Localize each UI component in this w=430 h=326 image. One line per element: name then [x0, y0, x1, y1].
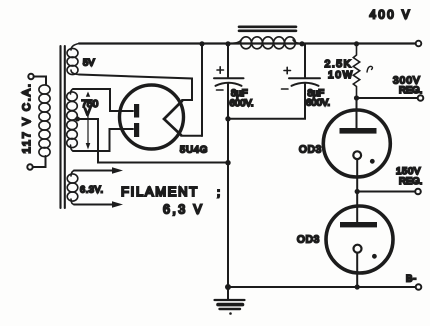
node junction choke right / cap C2	[299, 41, 304, 46]
wire OD3 V2 top lead	[356, 98, 358, 129]
capacitor C2 8uF 600V	[289, 78, 320, 86]
transformer T1 core	[61, 46, 65, 208]
label C2 minus	[282, 88, 289, 90]
label REG. (150V)	[399, 176, 422, 187]
label 10W	[328, 70, 354, 81]
terminal 400V output	[416, 41, 422, 47]
node junction OD3 V3 on B- rail	[355, 284, 360, 289]
label 150V	[396, 166, 421, 177]
capacitor C1 8uF 600V	[214, 78, 244, 86]
svg-text:2.5K: 2.5K	[325, 58, 353, 70]
wire cap C2 top lead	[304, 44, 306, 78]
filter choke L1 winding	[228, 37, 302, 49]
label 117 V C.A.	[21, 82, 33, 153]
svg-text:400 V: 400 V	[370, 10, 413, 22]
wire OD3 V3 top lead	[356, 192, 358, 224]
label REG. (300V)	[399, 85, 422, 96]
svg-text:6,3 V: 6,3 V	[163, 203, 204, 217]
terminal B-	[416, 284, 422, 290]
cathode circle of OD3 V2	[353, 151, 361, 159]
node junction cap C1 / choke left	[225, 41, 230, 46]
wire OD3 V2 cathode down	[356, 159, 358, 191]
wire OD3 V3 cathode down to B- rail	[356, 253, 358, 287]
label 750 V	[82, 99, 99, 117]
wire cap C1 top lead	[227, 44, 229, 78]
terminal 117V line top	[28, 74, 33, 79]
plate upper of 5U4G	[134, 104, 139, 118]
wire 6.3V bottom lead with arrow	[74, 201, 123, 207]
label 6.3V.	[80, 185, 104, 195]
label 6,3 V	[163, 203, 204, 217]
svg-text:10W: 10W	[328, 70, 354, 81]
anode bar of OD3 V3	[340, 222, 377, 227]
svg-text:5U4G: 5U4G	[180, 145, 208, 156]
label 2.5K	[325, 58, 353, 70]
label C2 600V	[306, 98, 330, 109]
resistor R1 2.5K 10W	[353, 44, 359, 99]
svg-text:OD3: OD3	[297, 235, 320, 246]
pin dot of OD3 V3	[372, 254, 377, 259]
svg-text:600V.: 600V.	[230, 98, 254, 109]
label C1 8uF	[231, 88, 248, 99]
squiggle mark	[367, 66, 373, 72]
label 400 V	[370, 10, 413, 22]
measure arrow 750 V	[86, 92, 91, 150]
terminal 117V line bottom	[27, 164, 32, 169]
wire top B+ bus	[79, 42, 418, 44]
svg-text:6.3V.: 6.3V.	[80, 185, 104, 195]
wire 150V REG output	[357, 191, 415, 193]
terminal 150V REG	[415, 189, 421, 195]
label C2 plus	[284, 67, 291, 73]
wire 300V REG output	[357, 97, 419, 99]
node junction center tap / cap C1 negative rail	[225, 160, 230, 165]
wire primary bottom lead	[33, 156, 46, 167]
wire 6.3V top lead with arrow	[74, 167, 123, 173]
pin dot of OD3 V2	[370, 159, 375, 164]
node 750V center tap	[75, 117, 80, 122]
node junction C2 return on C1 rail	[225, 116, 230, 121]
anode bar of OD3 V2	[340, 128, 377, 134]
wire center tap to ground bus	[78, 119, 227, 163]
svg-text:5V: 5V	[83, 58, 95, 69]
wire filament bottom to B+ riser	[181, 135, 202, 137]
label B-	[406, 274, 417, 285]
regulator tube V2 OD3 envelope	[323, 110, 390, 177]
label 5U4G	[180, 145, 208, 156]
transformer primary winding	[39, 85, 50, 157]
plate lower of 5U4G	[134, 123, 139, 137]
label C1 minus	[217, 89, 224, 91]
wire B- rail	[228, 286, 416, 288]
ground	[215, 287, 245, 315]
node junction resistor top	[354, 41, 359, 46]
regulator tube V3 OD3 envelope	[326, 206, 393, 273]
transformer 6.3V winding	[67, 171, 78, 205]
label C1 600V	[230, 98, 254, 109]
svg-text:REG.: REG.	[399, 85, 422, 96]
node junction ground	[225, 284, 231, 290]
filter choke L1 core	[239, 27, 296, 31]
label OD3 (V3)	[297, 235, 320, 246]
transformer 5V winding	[67, 44, 79, 75]
svg-text:OD3: OD3	[299, 145, 322, 156]
wire 5V winding bottom lead to filament top	[79, 75, 192, 101]
svg-text:117 V C.A.: 117 V C.A.	[21, 82, 33, 153]
wire cathode riser to bus	[201, 44, 203, 137]
terminal 300V REG	[418, 95, 424, 101]
label C1 plus	[217, 67, 224, 73]
svg-text:B-: B-	[406, 274, 417, 285]
node junction cathode to bus	[199, 41, 204, 46]
node junction 150V tap	[355, 189, 360, 194]
label 300V	[393, 76, 421, 87]
svg-text:600V.: 600V.	[306, 98, 330, 109]
cathode circle of OD3 V3	[354, 245, 362, 253]
wire cap C1 negative down to ground rail	[227, 84, 229, 287]
label C2 8uF	[308, 88, 325, 99]
label 5V	[83, 58, 95, 69]
svg-text:REG.: REG.	[399, 176, 422, 187]
svg-text:FILAMENT: FILAMENT	[121, 184, 199, 199]
transformer 750V winding	[67, 89, 78, 151]
label OD3 (V2)	[299, 145, 322, 156]
wire 750V bottom lead to lower plate	[73, 129, 133, 151]
node junction resistor bottom / OD3 top	[354, 95, 359, 100]
svg-text:V: V	[85, 107, 91, 117]
svg-text:;: ;	[217, 187, 220, 199]
wire 750V top lead to upper plate	[73, 89, 133, 111]
wire primary top lead	[34, 77, 46, 85]
label FILAMENT	[121, 184, 220, 199]
filament of 5U4G	[164, 101, 182, 135]
wire cap C2 negative return to C1 rail	[228, 84, 305, 119]
rectifier tube V1 5U4G envelope	[120, 85, 184, 149]
